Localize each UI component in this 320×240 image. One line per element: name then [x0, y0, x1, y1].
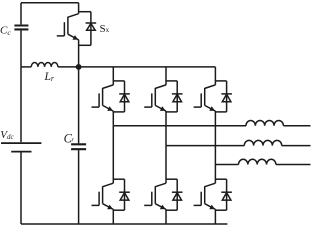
- bridge top IGBT T3 (phase-C upper): IGBT gate lead: [194, 106, 202, 108]
- wire: top-left loop top wire: [21, 2, 79, 4]
- bridge bottom IGBT T6 (phase-C lower): diode cathode bar: [221, 191, 232, 193]
- bridge bottom IGBT T4 (phase-A lower): IGBT emitter arrowhead: [107, 205, 113, 210]
- auxiliary switch Sx (IGBT with antiparallel diode): IGBT gate lead: [57, 35, 65, 37]
- bridge bottom IGBT T6 (phase-C lower): diode branch top wire: [215, 178, 226, 180]
- wire: left rail middle segment (Cc to battery): [20, 31, 22, 143]
- bridge bottom IGBT T4 (phase-A lower): collector wire: [112, 126, 114, 184]
- bridge top IGBT T1 (phase-A upper): IGBT gate bar: [98, 93, 100, 107]
- bridge bottom IGBT T4 (phase-A lower): diode triangle: [120, 193, 129, 201]
- bridge top IGBT T2 (phase-B upper): IGBT gate bar: [151, 93, 153, 107]
- bridge top IGBT T2 (phase-B upper): IGBT body bar: [154, 88, 156, 106]
- auxiliary switch Sx (IGBT with antiparallel diode): diode branch vertical wire: [90, 12, 92, 46]
- bridge top IGBT T1 (phase-A upper): IGBT collector diagonal: [103, 85, 114, 89]
- wire: phase-B output line (left of filter inductor): [166, 145, 244, 147]
- bridge bottom IGBT T6 (phase-C lower): IGBT collector diagonal: [205, 183, 216, 187]
- auxiliary switch Sx (IGBT with antiparallel diode): IGBT emitter diagonal: [68, 34, 79, 40]
- bridge bottom IGBT T5 (phase-B lower): diode triangle: [173, 193, 182, 201]
- bridge bottom IGBT T4 (phase-A lower): diode cathode bar: [119, 191, 130, 193]
- svg-text:Vdc: Vdc: [0, 129, 14, 141]
- bridge top IGBT T3 (phase-C upper): diode triangle: [222, 94, 231, 102]
- bridge bottom IGBT T5 (phase-B lower): IGBT gate lead: [144, 204, 152, 206]
- wire: phase-A output line (right of filter inductor): [283, 125, 310, 127]
- bridge top IGBT T2 (phase-B upper): IGBT emitter arrowhead: [160, 106, 166, 111]
- bridge top IGBT T2 (phase-B upper): diode triangle: [173, 94, 182, 102]
- bridge top IGBT T3 (phase-C upper): IGBT emitter arrowhead: [209, 106, 215, 111]
- bridge top IGBT T2 (phase-B upper): diode cathode bar: [172, 93, 183, 95]
- bridge top IGBT T1 (phase-A upper): IGBT emitter diagonal: [103, 105, 114, 111]
- bridge top IGBT T2 (phase-B upper): IGBT emitter diagonal: [155, 105, 166, 111]
- svg-text:Sx: Sx: [100, 23, 110, 35]
- bridge bottom IGBT T6 (phase-C lower): IGBT emitter arrowhead: [209, 205, 215, 210]
- auxiliary switch Sx (IGBT with antiparallel diode): IGBT collector diagonal: [68, 14, 79, 18]
- wire: Cr branch upper (node to Cr): [78, 67, 80, 143]
- auxiliary switch Sx (IGBT with antiparallel diode): diode branch top wire: [79, 11, 91, 13]
- bridge top IGBT T1 (phase-A upper): IGBT gate lead: [92, 106, 100, 108]
- bridge bottom IGBT T6 (phase-C lower): diode triangle: [222, 193, 231, 201]
- battery Vdc negative plate: [11, 151, 31, 153]
- bridge top IGBT T2 (phase-B upper): diode branch top wire: [166, 80, 177, 82]
- wire: left rail upper segment: [20, 3, 22, 25]
- bridge bottom IGBT T5 (phase-B lower): collector wire: [165, 146, 167, 184]
- bridge bottom IGBT T5 (phase-B lower): diode branch top wire: [166, 178, 177, 180]
- bridge top IGBT T1 (phase-A upper): diode branch bottom wire: [113, 111, 124, 113]
- wire: phase-B output line (right of filter inductor): [282, 145, 311, 147]
- auxiliary switch Sx (IGBT with antiparallel diode): emitter wire: [78, 40, 80, 67]
- auxiliary switch Sx (IGBT with antiparallel diode): diode cathode bar: [86, 22, 97, 24]
- bridge top IGBT T3 (phase-C upper): diode cathode bar: [221, 93, 232, 95]
- auxiliary switch Sx (IGBT with antiparallel diode): diode branch bottom wire: [79, 44, 91, 46]
- bridge top IGBT T1 (phase-A upper): diode branch vertical wire: [124, 81, 126, 112]
- auxiliary switch Sx (IGBT with antiparallel diode): IGBT emitter arrowhead: [73, 35, 79, 40]
- bridge bottom IGBT T4 (phase-A lower): diode branch top wire: [113, 178, 124, 180]
- bridge bottom IGBT T4 (phase-A lower): emitter wire: [112, 209, 114, 224]
- bridge bottom IGBT T4 (phase-A lower): IGBT emitter diagonal: [103, 204, 114, 210]
- bridge bottom IGBT T5 (phase-B lower): diode cathode bar: [172, 191, 183, 193]
- inductor: phase-A filter inductor: [246, 120, 283, 125]
- bridge top IGBT T1 (phase-A upper): diode triangle: [120, 94, 129, 102]
- svg-text:Cr: Cr: [64, 131, 75, 145]
- wire: phase-C output line (left of filter inductor): [215, 164, 238, 166]
- wire: left rail to Lr: [21, 66, 31, 68]
- capacitor Cc plates: [14, 26, 28, 30]
- wire: Cr branch lower (Cr to bottom rail): [78, 150, 80, 224]
- bridge top IGBT T2 (phase-B upper): IGBT collector diagonal: [155, 85, 166, 89]
- inductor Lr winding: [31, 63, 58, 67]
- bridge top IGBT T2 (phase-B upper): IGBT gate lead: [144, 106, 152, 108]
- auxiliary switch Sx (IGBT with antiparallel diode): collector wire: [78, 3, 80, 14]
- bridge bottom IGBT T6 (phase-C lower): IGBT emitter diagonal: [205, 204, 216, 210]
- bridge top IGBT T3 (phase-C upper): collector wire: [214, 67, 216, 85]
- battery Vdc positive plate: [1, 142, 41, 144]
- bridge bottom IGBT T5 (phase-B lower): diode branch bottom wire: [166, 209, 177, 211]
- bridge bottom IGBT T4 (phase-A lower): IGBT gate lead: [92, 204, 100, 206]
- bridge bottom IGBT T5 (phase-B lower): IGBT body bar: [154, 186, 156, 204]
- bridge bottom IGBT T6 (phase-C lower): diode branch vertical wire: [226, 179, 228, 210]
- bridge bottom IGBT T6 (phase-C lower): IGBT gate lead: [194, 204, 202, 206]
- bridge top IGBT T1 (phase-A upper): collector wire: [112, 67, 114, 85]
- wire: Lr to bridge top rail (ends at leg 3): [58, 66, 216, 68]
- wire: bottom rail: [21, 223, 227, 225]
- bridge bottom IGBT T6 (phase-C lower): IGBT body bar: [204, 186, 206, 204]
- wire: left rail lower segment (battery to bottom rail): [20, 152, 22, 224]
- bridge top IGBT T3 (phase-C upper): IGBT emitter diagonal: [205, 105, 216, 111]
- bridge bottom IGBT T4 (phase-A lower): IGBT collector diagonal: [103, 183, 114, 187]
- capacitor Cr plates: [71, 144, 86, 149]
- bridge bottom IGBT T4 (phase-A lower): diode branch vertical wire: [124, 179, 126, 210]
- bridge bottom IGBT T5 (phase-B lower): diode branch vertical wire: [176, 179, 178, 210]
- bridge top IGBT T3 (phase-C upper): IGBT body bar: [204, 88, 206, 106]
- bridge top IGBT T3 (phase-C upper): IGBT gate bar: [200, 93, 202, 107]
- bridge top IGBT T3 (phase-C upper): emitter wire: [214, 111, 216, 165]
- bridge top IGBT T3 (phase-C upper): diode branch bottom wire: [215, 111, 226, 113]
- bridge top IGBT T2 (phase-B upper): emitter wire: [165, 111, 167, 146]
- wire: phase-C output line (right of filter inductor): [276, 164, 311, 166]
- bridge bottom IGBT T5 (phase-B lower): IGBT collector diagonal: [155, 183, 166, 187]
- svg-text:Cc: Cc: [0, 25, 11, 38]
- svg-text:Lr: Lr: [44, 71, 55, 83]
- bridge top IGBT T1 (phase-A upper): diode cathode bar: [119, 93, 130, 95]
- bridge top IGBT T1 (phase-A upper): IGBT body bar: [102, 88, 104, 106]
- bridge top IGBT T1 (phase-A upper): IGBT emitter arrowhead: [107, 106, 113, 111]
- bridge top IGBT T2 (phase-B upper): diode branch vertical wire: [176, 81, 178, 112]
- bridge bottom IGBT T4 (phase-A lower): IGBT body bar: [102, 186, 104, 204]
- bridge top IGBT T2 (phase-B upper): diode branch bottom wire: [166, 111, 177, 113]
- auxiliary switch Sx (IGBT with antiparallel diode): IGBT gate bar: [63, 22, 65, 36]
- bridge bottom IGBT T4 (phase-A lower): IGBT gate bar: [98, 192, 100, 206]
- bridge bottom IGBT T5 (phase-B lower): emitter wire: [165, 209, 167, 224]
- inductor: phase-C filter inductor: [239, 159, 276, 164]
- wire: phase-A output line (left of filter inductor): [113, 125, 246, 127]
- inductor: phase-B filter inductor: [244, 140, 281, 145]
- bridge top IGBT T3 (phase-C upper): IGBT collector diagonal: [205, 85, 216, 89]
- auxiliary switch Sx (IGBT with antiparallel diode): IGBT body bar: [67, 17, 69, 35]
- bridge top IGBT T1 (phase-A upper): emitter wire: [112, 111, 114, 126]
- node: junction dot (Sx emitter / Lr / Cr / bridge): [76, 64, 82, 70]
- bridge top IGBT T2 (phase-B upper): collector wire: [165, 67, 167, 85]
- bridge top IGBT T3 (phase-C upper): diode branch top wire: [215, 80, 226, 82]
- bridge top IGBT T1 (phase-A upper): diode branch top wire: [113, 80, 124, 82]
- bridge bottom IGBT T5 (phase-B lower): IGBT gate bar: [151, 192, 153, 206]
- bridge bottom IGBT T4 (phase-A lower): diode branch bottom wire: [113, 209, 124, 211]
- bridge top IGBT T3 (phase-C upper): diode branch vertical wire: [226, 81, 228, 112]
- bridge bottom IGBT T6 (phase-C lower): collector wire: [214, 165, 216, 184]
- bridge bottom IGBT T6 (phase-C lower): diode branch bottom wire: [215, 209, 226, 211]
- bridge bottom IGBT T6 (phase-C lower): emitter wire: [214, 209, 216, 224]
- bridge bottom IGBT T5 (phase-B lower): IGBT emitter arrowhead: [160, 205, 166, 210]
- bridge bottom IGBT T6 (phase-C lower): IGBT gate bar: [200, 192, 202, 206]
- auxiliary switch Sx (IGBT with antiparallel diode): diode triangle: [87, 23, 96, 30]
- bridge bottom IGBT T5 (phase-B lower): IGBT emitter diagonal: [155, 204, 166, 210]
